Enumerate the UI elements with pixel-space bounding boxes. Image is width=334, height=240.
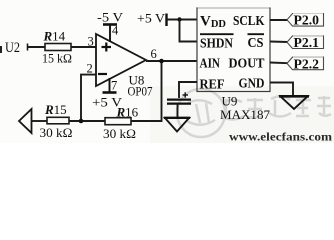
wire capacitor to ground — [177, 104, 179, 118]
pin REF — [200, 78, 225, 93]
resistor R14 — [45, 44, 71, 51]
svg-text:P2.0: P2.0 — [294, 13, 320, 28]
svg-text:SHDN: SHDN — [200, 37, 233, 52]
ground arrow (left input return) — [19, 109, 32, 133]
scan ghost edges — [198, 8, 323, 57]
pin number 2 — [87, 62, 93, 76]
svg-text:U2: U2 — [5, 40, 20, 56]
svg-text:R15: R15 — [44, 102, 67, 117]
label MAX187 — [220, 107, 270, 122]
svg-text:AIN: AIN — [200, 57, 221, 72]
svg-text:2: 2 — [87, 62, 93, 76]
svg-text:GND: GND — [239, 77, 265, 92]
pin GND — [239, 77, 265, 92]
value 30 kOhm — [40, 125, 73, 140]
wire SCLK to P2.0 — [270, 19, 288, 21]
svg-text:7: 7 — [111, 79, 117, 93]
label R16 — [116, 105, 139, 120]
wire U2 to R14 — [27, 44, 45, 51]
wire +5V to VDD — [167, 19, 198, 21]
power +5V rail tick — [165, 14, 167, 27]
node U2 (input label) — [5, 40, 20, 56]
svg-text:DOUT: DOUT — [229, 57, 266, 72]
plus input mark — [102, 43, 112, 52]
scan edge mark — [0, 46, 2, 53]
wire R16 to feedback riser — [131, 61, 162, 121]
value 15 kOhm — [42, 51, 72, 66]
watermark — [177, 89, 331, 137]
svg-text:6: 6 — [151, 47, 157, 61]
resistor R16 — [105, 118, 131, 125]
junction node (VDD/SHDN) — [177, 17, 181, 21]
op-amp U8 triangle — [96, 34, 146, 86]
value 30 kOhm — [103, 126, 136, 141]
port tag P2.0 — [287, 13, 324, 28]
svg-text:-5 V: -5 V — [97, 10, 124, 25]
svg-text:P2.2: P2.2 — [294, 56, 320, 71]
svg-text:15 kΩ: 15 kΩ — [42, 51, 72, 66]
wire R15 to R16 — [69, 120, 105, 122]
svg-text:MAX187: MAX187 — [220, 107, 270, 122]
wire R14 to op-amp pin3 — [71, 46, 96, 48]
wire DOUT to P2.2 — [270, 62, 288, 65]
label OP07 — [128, 84, 153, 99]
IC U9 box — [197, 8, 270, 92]
svg-text:OP07: OP07 — [128, 84, 153, 99]
pin number 6 — [151, 47, 157, 61]
pin AIN — [200, 57, 221, 72]
capacitor plus mark — [183, 92, 189, 97]
svg-text:www.elecfans.com: www.elecfans.com — [229, 130, 332, 144]
power +5V symbol on pin 7 — [103, 78, 117, 93]
svg-text:VDD: VDD — [200, 14, 226, 31]
wire REF to capacitor — [179, 82, 197, 98]
resistor R15 — [47, 117, 69, 124]
power -5V symbol on pin 4 — [103, 25, 117, 43]
pin number 3 — [88, 35, 94, 49]
wire arrow to R15 — [32, 120, 48, 122]
ground (capacitor) — [164, 118, 190, 132]
svg-text:30 kΩ: 30 kΩ — [103, 126, 136, 141]
wire CS to P2.1 — [270, 41, 288, 44]
pin VDD — [200, 14, 226, 31]
pin DOUT — [229, 57, 266, 72]
svg-text:3: 3 — [88, 35, 94, 49]
pin number 7 — [111, 79, 117, 93]
wire +5V to SHDN — [180, 20, 198, 42]
label U8 — [129, 73, 145, 88]
pin SHDN (active low) — [200, 34, 234, 51]
minus input mark — [98, 73, 107, 75]
pin number 4 — [112, 24, 119, 38]
svg-text:30 kΩ: 30 kΩ — [40, 125, 73, 140]
pin SCLK — [233, 14, 265, 29]
label R14 — [43, 29, 66, 44]
pin CS (active low) — [248, 34, 265, 51]
label -5 V — [97, 10, 124, 25]
svg-text:R14: R14 — [43, 29, 66, 44]
port tag P2.2 — [287, 56, 324, 71]
label U9 — [222, 94, 238, 109]
capacitor C (REF bypass) — [167, 100, 191, 104]
junction node (R15/R16/pin2) — [79, 119, 84, 124]
svg-text:SCLK: SCLK — [233, 14, 265, 29]
svg-text:REF: REF — [200, 78, 225, 93]
ground (ADC GND) — [279, 96, 309, 109]
svg-text:4: 4 — [112, 24, 119, 38]
label +5 V (op-amp supply) — [92, 95, 123, 110]
label +5 V (ADC supply) — [137, 11, 166, 26]
svg-text:+5 V: +5 V — [137, 11, 166, 26]
wire inverting input to feedback node — [81, 75, 96, 121]
svg-text:R16: R16 — [116, 105, 139, 120]
junction node (output/feedback) — [159, 59, 164, 64]
wire GND pin to ground — [270, 83, 293, 97]
port tag P2.1 — [287, 35, 324, 50]
wire op-amp output to AIN — [146, 60, 197, 62]
svg-text:CS: CS — [248, 36, 264, 51]
svg-text:P2.1: P2.1 — [294, 35, 320, 50]
label R15 — [44, 102, 67, 117]
